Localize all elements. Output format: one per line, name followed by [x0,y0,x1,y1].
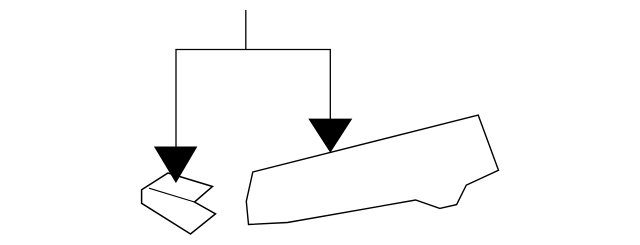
paper fold line [149,188,195,202]
tree bracket: left drop, horizontal bar, right drop [176,50,330,149]
left arrowhead [155,147,197,182]
folded paper (left icon) [142,173,216,234]
tree top stub [245,10,247,50]
right arrowhead [309,119,351,152]
big slab shape (right icon) [246,115,498,224]
